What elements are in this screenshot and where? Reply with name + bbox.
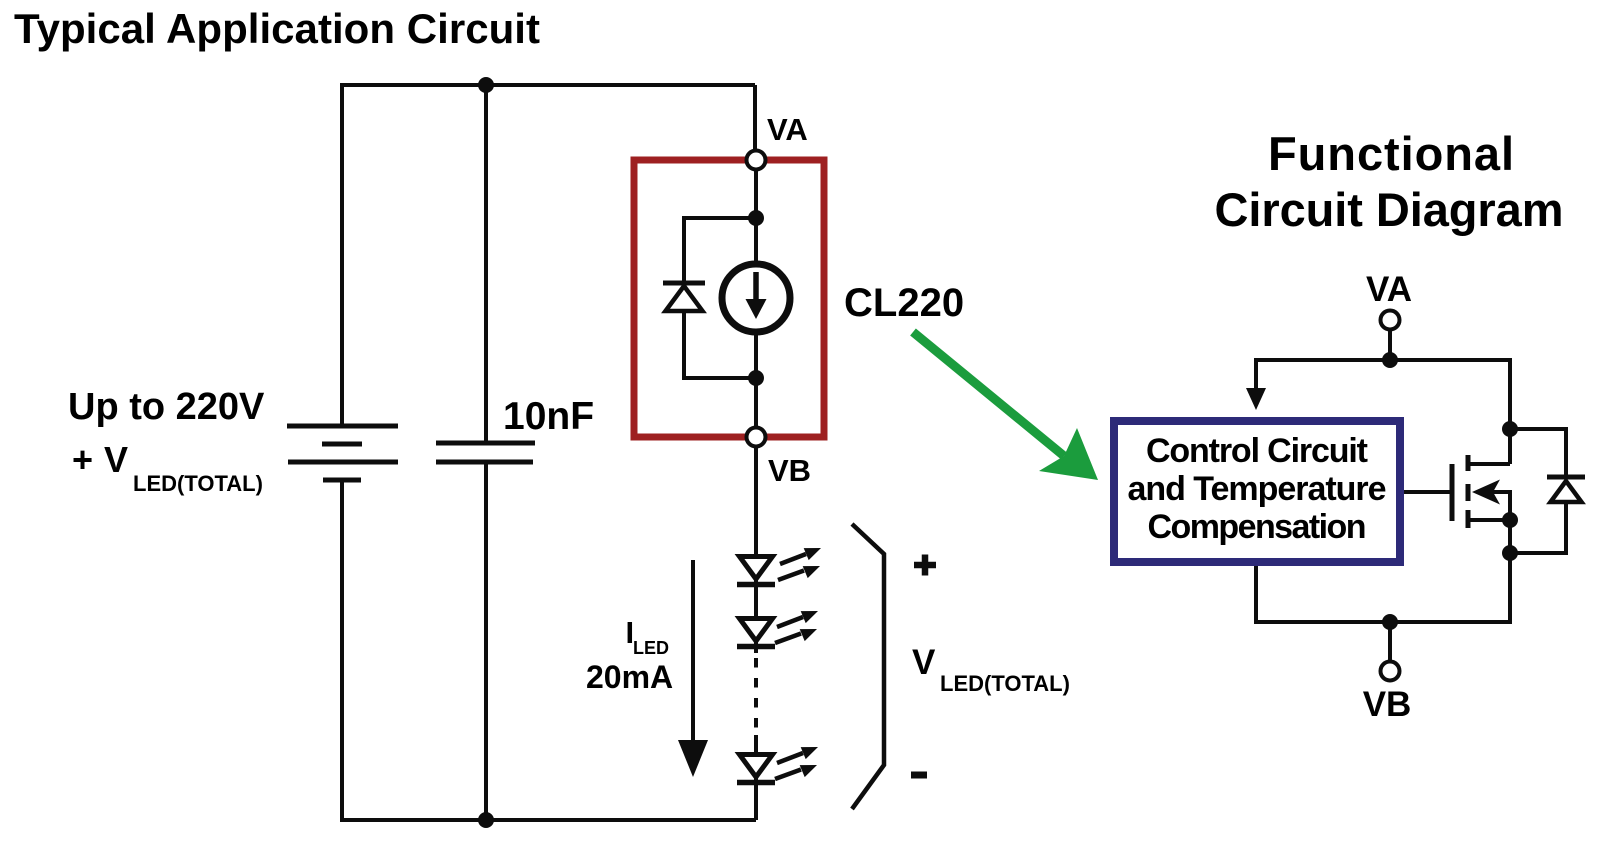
svg-text:20mA: 20mA: [586, 659, 673, 695]
node VB right: [1381, 662, 1400, 681]
label plus (bracket): [914, 555, 936, 576]
current source CS1: [722, 264, 790, 332]
wire left leg (battery branch): [340, 83, 344, 426]
node junction VA rail: [1382, 352, 1398, 368]
transistor Q1 channel segments: [1466, 455, 1471, 528]
ILED current arrow: [691, 560, 695, 742]
wire LED1-LED2: [754, 579, 758, 620]
wire capacitor leg lower: [484, 462, 488, 820]
transistor Q1 body stub with arrow: [1490, 492, 1510, 520]
svg-text:LED(TOTAL): LED(TOTAL): [133, 471, 263, 496]
wire top rail right: [1256, 358, 1510, 362]
wire drain up: [1508, 358, 1512, 464]
current source arrow: [753, 272, 759, 302]
svg-text:VA: VA: [1366, 270, 1412, 309]
wire VA drop: [753, 85, 757, 150]
svg-text:LED: LED: [633, 638, 669, 658]
node VA (left): [747, 151, 766, 170]
LED D2 rays: [778, 548, 821, 580]
capacitor C1: [436, 443, 535, 462]
diode D5 body: [1547, 477, 1585, 502]
wire VA stub: [1388, 331, 1392, 360]
transistor Q1 source stub: [1468, 518, 1510, 522]
wire VB to LED string: [754, 447, 758, 557]
LED D3: [737, 619, 775, 647]
wire left leg below battery: [340, 480, 344, 820]
node drain junction: [1502, 421, 1518, 437]
wire bottom rail right: [1256, 620, 1510, 624]
wire top rail: [342, 83, 755, 87]
battery BT1: [287, 426, 398, 480]
wire dashed (omitted LEDs): [754, 658, 758, 728]
arrow into box: [1246, 388, 1266, 410]
diode D1 clamp: [663, 283, 705, 311]
node source junction: [1502, 512, 1518, 528]
node junction diode bottom: [748, 370, 764, 386]
svg-text:V: V: [104, 439, 128, 480]
svg-text:Typical Application Circuit: Typical Application Circuit: [14, 5, 540, 52]
svg-text:Functional: Functional: [1268, 127, 1514, 180]
green callout arrow: [913, 332, 1064, 456]
LED D2: [737, 557, 775, 585]
wire LED4 to bottom rail: [754, 777, 758, 820]
node junction bottom (cap leg / rail): [478, 812, 494, 828]
node VA right: [1381, 311, 1400, 330]
svg-text:Up to 220V: Up to 220V: [68, 386, 265, 428]
svg-text:Control Circuit: Control Circuit: [1146, 432, 1368, 470]
wire gate: [1404, 490, 1452, 494]
wire to LED4: [754, 735, 758, 757]
svg-text:V: V: [912, 643, 936, 682]
wire left leg into box: [1254, 358, 1258, 390]
svg-text:CL220: CL220: [844, 281, 964, 325]
wire diode branch top: [1510, 429, 1566, 478]
svg-text:Circuit Diagram: Circuit Diagram: [1215, 183, 1564, 236]
transistor Q1 drain stub: [1468, 462, 1510, 466]
wire diode branch bottom: [684, 313, 756, 378]
LED D4 rays: [775, 747, 818, 779]
control box U1: [1114, 421, 1400, 562]
bracket VLED(TOTAL): [852, 524, 884, 809]
label minus (bracket): [911, 772, 927, 779]
wire inside box upper: [754, 170, 758, 266]
node VB (left): [747, 428, 766, 447]
node junction diode top: [748, 210, 764, 226]
wire capacitor leg upper: [484, 85, 488, 443]
wire LED2 down: [754, 641, 758, 653]
wire box bottom leg: [1254, 566, 1258, 624]
node junction top (cap leg / rail): [478, 77, 494, 93]
wire diode branch top: [684, 218, 756, 283]
svg-text:LED(TOTAL): LED(TOTAL): [940, 671, 1070, 696]
wire diode branch bottom: [1510, 504, 1566, 553]
LED D4: [737, 755, 775, 783]
node diode return junction: [1502, 545, 1518, 561]
wire inside box lower: [754, 332, 758, 427]
LED D3 rays: [775, 611, 818, 643]
CL220 outline box (red): [634, 160, 824, 437]
svg-text:VB: VB: [1363, 685, 1412, 724]
wire bottom rail: [340, 818, 756, 822]
svg-text:10nF: 10nF: [503, 395, 594, 438]
svg-text:VA: VA: [767, 112, 808, 147]
node junction VB rail: [1382, 614, 1398, 630]
wire source down: [1508, 520, 1512, 624]
svg-text:VB: VB: [768, 453, 811, 488]
svg-text:Compensation: Compensation: [1148, 508, 1367, 546]
svg-text:+: +: [72, 439, 93, 480]
svg-text:and Temperature: and Temperature: [1128, 470, 1387, 508]
transistor Q1 (MOSFET) gate bar: [1450, 464, 1455, 521]
wire VB stub: [1388, 622, 1392, 661]
